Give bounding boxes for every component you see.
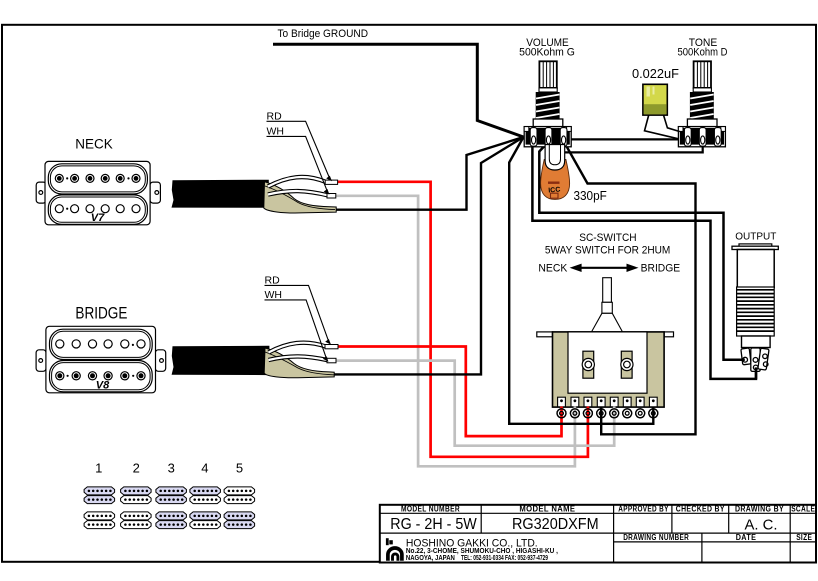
wire neck red: [337, 182, 588, 457]
jack flange: [739, 244, 772, 246]
wire neck white: [334, 196, 575, 467]
jack base: [742, 336, 771, 348]
position 5 coils: [224, 487, 255, 495]
svg-text:500Kohm G: 500Kohm G: [519, 46, 575, 58]
position 4 coils: [190, 487, 221, 495]
wire switch t4 to volume lug3 (hot): [566, 145, 696, 435]
svg-text:330pF: 330pF: [574, 188, 607, 203]
svg-text:NECK: NECK: [75, 136, 113, 151]
neck lead wires: [268, 177, 328, 195]
jack threads: [737, 287, 775, 336]
potentiometer TONE 500Kohm D: [678, 37, 728, 147]
svg-text:SIZE: SIZE: [796, 533, 812, 542]
svg-text:NAGOYA, JAPAN: NAGOYA, JAPAN: [406, 555, 455, 562]
svg-text:1: 1: [95, 461, 102, 476]
svg-text:RG - 2H - 5W: RG - 2H - 5W: [390, 516, 477, 533]
position 3 coils: [156, 487, 187, 495]
switch position chart: [84, 461, 255, 529]
arrow neck-bridge: [573, 267, 635, 269]
wire stubs over eyelets: [562, 407, 654, 419]
switch mounting tabs: [537, 332, 553, 337]
svg-text:DATE: DATE: [736, 533, 757, 542]
jack wire ends: [724, 358, 745, 361]
svg-text:To Bridge GROUND: To Bridge GROUND: [278, 28, 369, 40]
svg-text:TEL: 052-931-0334 FAX: 052-93: TEL: 052-931-0334 FAX: 052-937-4729: [461, 555, 548, 562]
jack lug right: [758, 348, 769, 370]
switch contact slots: [583, 351, 594, 378]
svg-text:2: 2: [133, 461, 140, 476]
svg-text:A. C.: A. C.: [745, 517, 778, 534]
position numbers 1-5: [95, 461, 243, 476]
svg-text:3: 3: [168, 461, 175, 476]
svg-text:4: 4: [201, 461, 208, 476]
position 1 coils: [84, 487, 115, 495]
wire neck black to volume casing: [336, 137, 524, 210]
jack barrel: [737, 250, 774, 288]
jack lug center: [751, 348, 760, 371]
jack lug left: [741, 348, 751, 365]
wire volume lug3 to tone lug1: [567, 138, 678, 140]
position 2 coils: [121, 487, 152, 495]
pickup V8 BRIDGE: [36, 326, 166, 393]
svg-text:5: 5: [236, 461, 243, 476]
wire bridge red: [337, 347, 562, 437]
capacitor 0.022uF: [632, 67, 680, 139]
wire volume lug1 to output jack: [532, 145, 756, 379]
potentiometer VOLUME 500Kohm G: [519, 37, 575, 147]
svg-text:RG320DXFM: RG320DXFM: [512, 516, 599, 533]
capacitor 330pF: [541, 145, 570, 200]
svg-text:No.22, 3-CHOME, SHUMOKU-CHO ,: No.22, 3-CHOME, SHUMOKU-CHO , HIGASHI-KU…: [406, 548, 558, 555]
switch lever: [603, 278, 612, 303]
svg-text:V7: V7: [91, 212, 105, 224]
neck braid crease: [265, 186, 335, 210]
title block: [380, 505, 816, 563]
bridge pickup cable: [172, 346, 270, 375]
svg-text:APPROVED BY: APPROVED BY: [618, 505, 669, 514]
bridge lead wires: [269, 343, 329, 361]
wire bridge black to volume casing: [334, 137, 524, 374]
svg-text:0.022uF: 0.022uF: [632, 67, 679, 81]
bridge shield braid: [264, 348, 334, 378]
svg-text:NECK: NECK: [538, 262, 568, 274]
svg-text:SC-SWITCH: SC-SWITCH: [579, 232, 636, 244]
bridge braid crease: [265, 352, 335, 375]
svg-text:MODEL NUMBER: MODEL NUMBER: [401, 505, 460, 514]
svg-text:BRIDGE: BRIDGE: [641, 262, 681, 274]
switch terminals 1-8: [558, 397, 658, 407]
svg-text:OUTPUT: OUTPUT: [735, 231, 776, 242]
switch SC-SWITCH 5WAY: [537, 232, 680, 418]
svg-text:500Kohm D: 500Kohm D: [678, 46, 728, 58]
pickup V7 NECK: [36, 161, 160, 224]
svg-text:MODEL NAME: MODEL NAME: [519, 505, 575, 514]
neck shield braid: [264, 182, 336, 213]
switch frame: [553, 332, 665, 407]
maker logo: [386, 538, 402, 561]
switch eyelets: [557, 409, 658, 418]
svg-text:CHECKED BY: CHECKED BY: [676, 505, 725, 514]
svg-text:5WAY SWITCH FOR 2HUM: 5WAY SWITCH FOR 2HUM: [545, 244, 671, 256]
wire volume lug2 to tone lug2: [547, 145, 703, 152]
svg-text:BRIDGE: BRIDGE: [75, 303, 127, 322]
wire switch ground bus t8 to volume casing: [509, 137, 653, 424]
output jack: [724, 231, 779, 379]
svg-text:RD: RD: [267, 111, 283, 123]
wire to bridge ground: [273, 44, 524, 137]
svg-text:DRAWING NUMBER: DRAWING NUMBER: [623, 533, 689, 542]
neck pickup cable: [172, 180, 269, 208]
svg-text:SCALE: SCALE: [791, 505, 815, 514]
wire volume lug2 to output jack tip: [539, 145, 744, 360]
svg-text:DRAWING BY: DRAWING BY: [735, 505, 784, 514]
svg-text:V8: V8: [96, 380, 110, 392]
jack lug holes: [743, 354, 768, 370]
wire bridge white: [336, 361, 614, 446]
